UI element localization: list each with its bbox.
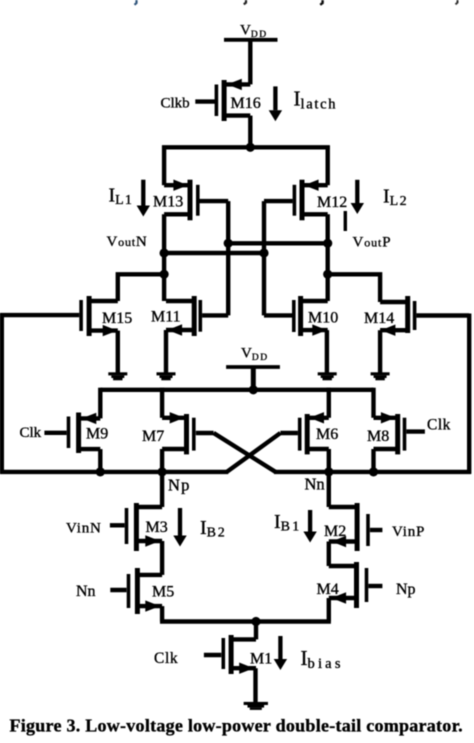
node Np dot xyxy=(158,467,167,476)
transistor M11 (NMOS latch, mirrored) xyxy=(166,296,228,336)
node dot rail A left xyxy=(224,239,233,248)
node dot M8 drain xyxy=(369,467,378,476)
current arrow Ibias xyxy=(274,636,287,670)
svg-text:M4: M4 xyxy=(317,581,339,598)
wire latch top rail xyxy=(162,145,330,149)
node dot VDD mid rail xyxy=(249,385,258,394)
current arrow IB1 xyxy=(303,510,316,543)
svg-text:M12: M12 xyxy=(317,194,347,211)
wire M15 drain connector xyxy=(118,274,164,301)
transistor M1 (NMOS tail) xyxy=(204,635,256,674)
svg-text:Clk: Clk xyxy=(154,650,178,667)
wire M8 drain drop xyxy=(371,449,375,472)
current arrow IL1 xyxy=(137,180,150,217)
wire M11 source to ground xyxy=(164,330,168,373)
top cut-off text fragment (comma) xyxy=(244,0,246,4)
transistor M10 (NMOS latch) xyxy=(264,296,328,336)
svg-text:Figure 3. Low-voltage low-powe: Figure 3. Low-voltage low-power double-t… xyxy=(10,716,463,736)
svg-text:M15: M15 xyxy=(102,310,132,327)
wire VoutP vertical (M12 drain to M10 drain) xyxy=(326,214,330,301)
wire VDD to M16 source xyxy=(248,41,252,84)
wire M15 gate to left edge down to bottom rail xyxy=(0,313,4,474)
wire tail rail xyxy=(160,619,331,623)
node dot M9 drain xyxy=(96,467,105,476)
transistor M4 (NMOS cascode, mirrored) xyxy=(329,562,383,608)
wire M14 gate right edge down to bottom rail xyxy=(467,314,471,474)
svg-text:Np: Np xyxy=(396,581,416,598)
svg-text:M8: M8 xyxy=(367,428,389,445)
node dot tail xyxy=(251,617,260,626)
wire tail to M1 drain xyxy=(254,622,258,640)
top cut-off text fragment (comma) xyxy=(456,0,458,4)
svg-text:Clk: Clk xyxy=(427,417,451,434)
current arrow Ilatch xyxy=(269,86,282,121)
wire Np to M3 drain xyxy=(160,472,164,507)
current arrow IB2 xyxy=(173,508,186,547)
wire bottom rail right segment xyxy=(274,470,471,474)
transistor M9 (PMOS switch) xyxy=(44,413,100,454)
ground main (below M1) xyxy=(244,702,268,710)
transistor M6 (PMOS pass) xyxy=(280,412,328,454)
wire M9 drain drop xyxy=(98,449,102,472)
wire M1 source to ground xyxy=(253,668,257,702)
svg-text:Nn: Nn xyxy=(305,475,325,494)
transistor M3 (NMOS input) xyxy=(110,503,162,551)
transistor M13 (PMOS latch, mirrored) xyxy=(164,180,228,221)
svg-text:M2: M2 xyxy=(324,523,346,540)
power symbol VDD top xyxy=(224,22,278,40)
wire M5 source drop xyxy=(160,606,164,621)
node dot VoutN / M15 xyxy=(160,270,169,279)
svg-text:VoutP: VoutP xyxy=(353,235,392,251)
node dot VoutP / M14 xyxy=(323,270,332,279)
wire M14 source to ground xyxy=(378,330,382,372)
wire M3 source to M5 drain xyxy=(160,541,164,575)
transistor M8 (PMOS switch, mirrored) xyxy=(374,412,425,454)
node dot latch rail xyxy=(246,143,255,152)
wire cross-couple diagonal M6 gate to Np rail xyxy=(227,433,281,472)
wire rail to M7 source xyxy=(160,388,164,418)
svg-text:M11: M11 xyxy=(151,309,181,326)
node Nn dot xyxy=(324,467,333,476)
wire rail to M6 source xyxy=(327,388,331,418)
wire M10 source to ground xyxy=(325,330,329,372)
node dot rail B right xyxy=(259,248,268,257)
svg-text:M13: M13 xyxy=(153,194,183,211)
svg-text:Clk: Clk xyxy=(20,425,42,441)
node dot rail A right xyxy=(323,239,332,248)
ground below M10 xyxy=(318,372,337,380)
wire M16 drain to latch rail xyxy=(248,116,252,148)
svg-text:Clkb: Clkb xyxy=(161,96,190,112)
node dot rail B left xyxy=(160,248,169,257)
svg-text:Nn: Nn xyxy=(76,583,96,600)
wire rail to M8 source xyxy=(371,388,375,418)
wire M12-gate drop to M10 gate xyxy=(262,201,266,315)
transistor M16 (PMOS tail switch) xyxy=(195,79,250,121)
svg-text:VoutN: VoutN xyxy=(107,234,148,250)
ground below M14 xyxy=(371,372,390,380)
wire rail to M12 source xyxy=(326,146,330,186)
wire rail to M13 source xyxy=(162,146,166,186)
wire cross rail B (VoutN to M12 gate) xyxy=(164,251,264,255)
wire M4 source drop xyxy=(327,598,331,622)
wire cross rail A (M13 gate to VoutP) xyxy=(228,241,328,245)
top cut-off text fragment (comma) xyxy=(320,0,322,5)
wire bottom rail left segment xyxy=(0,470,228,474)
transistor M5 (NMOS cascode) xyxy=(110,568,162,614)
svg-text:M7: M7 xyxy=(142,428,164,445)
svg-text:M5: M5 xyxy=(152,584,174,601)
transistor M2 (NMOS input, mirrored) xyxy=(329,503,383,551)
svg-text:M3: M3 xyxy=(146,519,168,536)
current arrow IL2 xyxy=(351,180,364,214)
svg-text:M6: M6 xyxy=(316,426,338,443)
top cut-off text fragment (blue comma) xyxy=(135,0,137,5)
svg-text:M14: M14 xyxy=(364,310,394,327)
svg-text:VinN: VinN xyxy=(66,521,102,537)
ground below M11 xyxy=(157,372,176,380)
svg-text:VinP: VinP xyxy=(392,524,425,540)
wire rail to M9 source xyxy=(98,388,102,419)
transistor M15 (NMOS reset) xyxy=(0,296,118,336)
wire cross-couple diagonal M7 gate to Nn rail xyxy=(214,433,276,472)
transistor M7 (PMOS pass, mirrored) xyxy=(162,412,214,454)
svg-text:M16: M16 xyxy=(231,95,261,112)
wire M13-gate drop to M11 gate xyxy=(226,201,230,315)
wire M2 source to M4 drain xyxy=(327,542,331,567)
ground below M15 xyxy=(108,372,127,380)
transistor M14 (NMOS reset, mirrored) xyxy=(380,296,469,336)
wire Nn to M2 drain xyxy=(327,472,331,507)
stray mark segment right of M12 xyxy=(344,211,347,231)
svg-text:M10: M10 xyxy=(308,310,338,327)
wire M7 drain drop xyxy=(160,449,164,472)
wire VoutN vertical (M13 drain to M11 drain) xyxy=(162,214,166,301)
svg-text:M1: M1 xyxy=(250,651,272,668)
svg-text:Np: Np xyxy=(168,476,191,495)
wire VDD stem to mid rail xyxy=(251,368,256,390)
wire M14 drain connector xyxy=(328,274,380,302)
wire M15 source to ground xyxy=(116,331,120,373)
wire mid VDD rail xyxy=(100,388,373,392)
transistor M12 (PMOS latch) xyxy=(264,180,328,221)
power symbol VDD middle xyxy=(226,346,280,367)
wire M6 drain drop xyxy=(327,449,331,472)
svg-text:M9: M9 xyxy=(86,426,108,443)
